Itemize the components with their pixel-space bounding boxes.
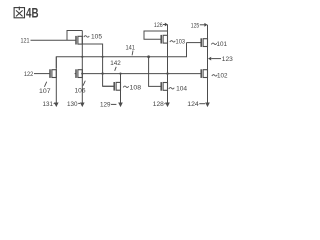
label ~105 xyxy=(84,36,89,37)
label ~102 xyxy=(212,75,217,76)
label ~103 xyxy=(170,41,175,42)
terminal arrow 123 output xyxy=(208,57,211,61)
terminal arrow 126 xyxy=(165,23,168,27)
wire: 108 drain from node 142 down to terminal 129 xyxy=(120,74,122,103)
junction 142 riser on node 142 wire xyxy=(101,72,103,74)
svg-text:125: 125 xyxy=(191,23,200,30)
leader for 106 xyxy=(83,81,85,86)
label ~104 xyxy=(169,88,174,89)
junction node 141 / 104 gate xyxy=(147,55,150,58)
wire: node 142 horizontal to gate of 102 xyxy=(82,73,201,75)
svg-text:107: 107 xyxy=(39,88,51,95)
wire: gate of 104 from node 141 xyxy=(149,57,162,87)
svg-text:102: 102 xyxy=(217,73,228,80)
wire: 122 lead to gate of 107 xyxy=(34,73,50,75)
transistor Q103 xyxy=(161,35,167,44)
leader for 142 xyxy=(115,67,117,71)
wire: gate lead of 101 from node 141 riser xyxy=(187,42,202,44)
junction 105 drain on bus 141 xyxy=(81,56,83,58)
svg-text:121: 121 xyxy=(21,38,30,45)
transistor Q102 xyxy=(201,69,207,78)
wire: 105 source tap over to node-142 riser xyxy=(82,44,114,86)
svg-text:142: 142 xyxy=(110,60,121,67)
svg-text:131: 131 xyxy=(43,101,54,108)
leader for 107 xyxy=(44,82,46,87)
transistor Q105 xyxy=(76,36,82,45)
svg-text:105: 105 xyxy=(91,34,102,41)
transistor Q108 xyxy=(103,82,121,91)
svg-text:129: 129 xyxy=(100,102,111,109)
svg-text:123: 123 xyxy=(222,56,233,63)
junction 106 tap on node 142 xyxy=(81,73,83,75)
terminal arrow 131 xyxy=(54,103,59,108)
svg-text:126: 126 xyxy=(154,22,163,29)
transistor Q101 xyxy=(201,38,207,47)
svg-text:108: 108 xyxy=(130,85,142,92)
wire: input 121 lead to gate of 105 xyxy=(31,39,77,41)
terminal arrow 125 xyxy=(204,23,207,27)
terminal arrow 129 xyxy=(118,103,123,108)
terminal arrow 128 xyxy=(165,103,170,108)
svg-text:141: 141 xyxy=(125,44,135,51)
svg-text:101: 101 xyxy=(217,41,228,48)
junction 142 riser crossing bus xyxy=(102,56,104,58)
transistor Q106 xyxy=(75,69,83,78)
svg-text:4B: 4B xyxy=(26,5,39,21)
svg-text:106: 106 xyxy=(75,87,86,94)
title 図4B xyxy=(14,7,24,18)
wire: 125 supply vertical through 101 and 102 to terminal 124 xyxy=(207,25,209,103)
terminal arrow 130 xyxy=(80,103,85,108)
svg-text:122: 122 xyxy=(24,71,34,78)
label ~101 xyxy=(211,43,216,44)
label ~108 xyxy=(123,86,128,87)
wire: 126 supply vertical through 103 and 104 to terminal 128 xyxy=(167,25,169,103)
wire: gate-drain loop of 105 xyxy=(67,31,82,41)
terminal arrow 124 xyxy=(205,103,210,108)
svg-text:130: 130 xyxy=(67,101,78,108)
junction 108 drain on node 142 wire xyxy=(119,73,121,75)
wire: main vertical through 105,106 down to terminal 130 xyxy=(81,31,83,103)
junction 103 source on node 142 wire xyxy=(166,72,168,74)
wire: 107 drain/source vertical to terminal 131 xyxy=(55,57,57,103)
wire: node 141 bus xyxy=(56,43,186,68)
wire: gate-drain loop of 103 xyxy=(144,31,168,39)
svg-text:103: 103 xyxy=(176,39,186,46)
svg-text:104: 104 xyxy=(176,85,187,92)
svg-text:128: 128 xyxy=(153,101,164,108)
leader for 141 xyxy=(131,51,134,56)
transistor Q104 xyxy=(161,82,167,91)
svg-text:124: 124 xyxy=(187,101,199,108)
transistor Q107 xyxy=(50,69,56,78)
